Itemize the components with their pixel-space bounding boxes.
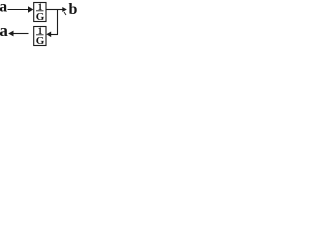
svg-text:b: b — [69, 1, 78, 18]
svg-text:a: a — [0, 0, 7, 16]
svg-text:G: G — [36, 35, 45, 47]
svg-text:a: a — [0, 21, 8, 40]
svg-text:G: G — [36, 11, 45, 23]
